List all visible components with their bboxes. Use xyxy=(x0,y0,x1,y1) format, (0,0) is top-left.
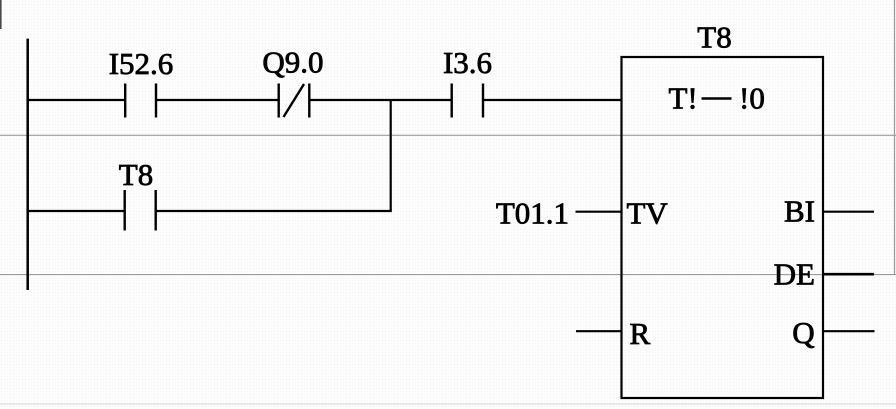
contact T8 xyxy=(125,190,156,231)
svg-text:T01.1: T01.1 xyxy=(496,196,569,231)
contact I52.6 xyxy=(125,84,156,118)
wire T8 to branch xyxy=(156,210,392,212)
background separator rule upper xyxy=(0,134,896,136)
left power rail xyxy=(26,39,29,290)
background separator rule lower xyxy=(0,274,896,276)
svg-text:T!: T! xyxy=(669,81,698,116)
svg-text:R: R xyxy=(630,316,651,351)
svg-text:I3.6: I3.6 xyxy=(443,45,492,80)
wire DE output xyxy=(823,273,875,276)
wire rung1 rail to I52.6 xyxy=(27,99,125,101)
contact Q9.0 normally-closed xyxy=(279,84,310,118)
svg-text:Q9.0: Q9.0 xyxy=(262,45,323,80)
background left edge mark xyxy=(0,0,2,29)
svg-text:!0: !0 xyxy=(739,81,765,116)
background bottom rule xyxy=(0,403,896,405)
wire I52.6 to Q9.0 xyxy=(156,99,279,101)
background right edge rule xyxy=(894,0,896,275)
svg-text:TV: TV xyxy=(627,196,669,231)
timer U T8 box xyxy=(622,57,824,398)
svg-text:Q: Q xyxy=(792,315,814,350)
wire I3.6 to timer box xyxy=(483,99,622,101)
svg-text:T8: T8 xyxy=(697,20,731,55)
wire Q output xyxy=(823,330,875,332)
wire TV input xyxy=(576,211,623,213)
svg-text:I52.6: I52.6 xyxy=(109,46,174,81)
wire BI output xyxy=(823,211,875,213)
svg-text:BI: BI xyxy=(784,194,815,229)
wire branch vertical (node at rung1 junction) xyxy=(390,100,392,211)
svg-text:DE: DE xyxy=(774,257,815,292)
wire R input xyxy=(576,330,622,332)
contact I3.6 xyxy=(452,84,483,118)
svg-text:T8: T8 xyxy=(119,157,153,192)
wire Q9.0 to I3.6 through node xyxy=(309,99,452,101)
wire rung2 rail to T8 xyxy=(27,210,125,212)
